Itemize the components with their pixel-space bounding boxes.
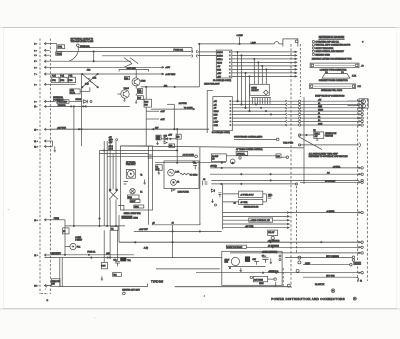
component bracket x118-124 y205	[118, 205, 124, 210]
svg-text:RETURNED TO SYSTEM AT LOW RESO: RETURNED TO SYSTEM AT LOW RESOLVE	[309, 155, 348, 158]
interlock switch box	[314, 132, 324, 138]
svg-text:+15: +15	[214, 104, 217, 106]
capacitor C4	[115, 261, 120, 266]
wires regulator left	[223, 193, 239, 195]
crossover X small diagonal 2	[109, 191, 117, 200]
svg-text:LAMP: LAMP	[305, 262, 311, 265]
svg-text:6 ∘: 6 ∘	[34, 67, 37, 69]
resistor R27 box	[137, 96, 143, 100]
row y227.7	[223, 227, 290, 229]
dark component box	[245, 256, 250, 262]
resistor R2 zigzag	[180, 173, 189, 175]
svg-text:A5A1: A5A1	[134, 205, 138, 208]
transistor Q1	[132, 78, 140, 86]
wire vertical x113.1	[112, 154, 114, 190]
page left edge	[2, 28, 4, 309]
svg-text:+24V BUS: +24V BUS	[57, 127, 67, 129]
right column dashed rail x367.3	[366, 99, 368, 281]
wire vertical x172.6	[172, 225, 174, 258]
svg-text:MAIN VOLTAGE: MAIN VOLTAGE	[227, 246, 243, 249]
svg-text:DELAY: DELAY	[268, 231, 275, 234]
wire vertical x249.5	[249, 76, 251, 111]
regulator box 1 in A5	[128, 195, 140, 199]
relay K2 box top right	[359, 99, 368, 108]
page bottom boundary line	[0, 308, 400, 310]
dashed rail x296.4 mid	[295, 186, 297, 253]
svg-text:T2: T2	[140, 174, 142, 176]
capacitor C4b right of box	[203, 181, 208, 186]
wire strap out	[69, 101, 82, 103]
wire vertical x237.5	[237, 52, 239, 101]
svg-text:F6: F6	[63, 231, 65, 233]
capacitor C5	[262, 258, 268, 263]
ground under C1	[158, 170, 160, 174]
wire vertical x116	[115, 141, 117, 189]
wire Q1 collector drop	[135, 70, 137, 78]
svg-text:TB1: TB1	[127, 260, 130, 262]
svg-text:PWR STRP: PWR STRP	[57, 102, 68, 104]
svg-text:C5 +: C5 +	[262, 256, 266, 258]
svg-text:FU2: FU2	[61, 80, 65, 82]
svg-text:LAMP: LAMP	[214, 120, 220, 123]
arrow stub on bus	[134, 241, 136, 243]
svg-text:+15 (UNREG): +15 (UNREG)	[268, 241, 280, 243]
regulator box 3 in A5	[134, 205, 144, 208]
svg-text:CHAS PWR ASSY: CHAS PWR ASSY	[204, 83, 220, 86]
relay contact circles	[109, 189, 111, 191]
svg-text:P3: P3	[341, 72, 343, 74]
dashed rail x283.2 bottom	[282, 268, 284, 288]
wire vertical x107.2	[106, 141, 108, 226]
vertical rail x222.6	[222, 184, 224, 230]
module box left rail x148.4	[147, 146, 149, 225]
wire vertical x73.9	[73, 106, 75, 225]
remote mem A15 box	[253, 276, 267, 281]
outer left margin band	[0, 28, 3, 309]
svg-text:5 ∘: 5 ∘	[34, 61, 37, 63]
page top boundary line	[0, 27, 400, 29]
svg-text:CR2: CR2	[93, 78, 97, 80]
AC in connector circle	[195, 155, 198, 158]
svg-text:SEE FIRST LETTER FOR REFERENCE: SEE FIRST LETTER FOR REFERENCE TYPE	[312, 59, 352, 61]
wire FL1 tap	[65, 246, 70, 248]
svg-text:P2: P2	[325, 72, 327, 74]
A5A2 dark hatched box	[121, 216, 132, 219]
bus y268.9 center	[156, 268, 220, 270]
svg-text:CR5: CR5	[164, 136, 167, 138]
resistor R33 dark label	[144, 99, 152, 107]
cable break connector symbol row2	[192, 54, 198, 57]
row +5 reg y212.5	[223, 212, 360, 214]
svg-text:+24V OUT: +24V OUT	[139, 229, 149, 231]
wire pin20 y219.8	[50, 219, 65, 221]
svg-text:FUSE 30A: FUSE 30A	[174, 49, 184, 52]
svg-text:A4 FUSE: A4 FUSE	[179, 102, 188, 105]
main divider bus y146.1	[121, 146, 305, 148]
svg-text:PWR SPLY: PWR SPLY	[126, 164, 136, 166]
dark box right y262	[353, 262, 361, 265]
terminal box J2	[213, 97, 232, 131]
rectifier BR1	[231, 257, 239, 265]
wire fuse taps from bus y74	[55, 74, 72, 77]
wire vertical x207.2	[206, 90, 208, 133]
connector bar P-X	[310, 84, 356, 89]
svg-text:10 ∘: 10 ∘	[34, 129, 38, 131]
wire pin9b y106.4	[50, 105, 130, 107]
wire vertical x177.2	[176, 129, 178, 163]
svg-text:24VDC: 24VDC	[217, 52, 223, 54]
wire to conn arrow y109.1	[151, 108, 195, 110]
row lamp y264.7	[303, 264, 350, 266]
svg-text:+5MEM P.S.: +5MEM P.S.	[268, 271, 279, 273]
wire row y144.9 to big connector	[300, 144, 359, 146]
svg-text:HEATER CKT 115V: HEATER CKT 115V	[122, 288, 140, 291]
wire A5B to X bottom	[80, 90, 90, 92]
bus y225.9	[65, 225, 125, 227]
svg-text:9 ∘: 9 ∘	[34, 102, 37, 104]
resistor R24 label box	[124, 76, 129, 79]
diagonal crossover hatch near x128	[124, 58, 138, 68]
svg-text:21 ∘: 21 ∘	[34, 255, 38, 257]
wire pin2 to battery box	[50, 43, 57, 45]
page top margin band	[0, 0, 400, 28]
diode CR9 below filter box	[171, 189, 175, 192]
connector P1 pin 10	[44, 128, 46, 131]
connector P1 pin 9	[44, 100, 46, 103]
ground lower left cluster	[101, 276, 103, 280]
diode CR6	[164, 141, 167, 144]
svg-text:+8.5V REG: +8.5V REG	[165, 74, 176, 76]
row y224	[223, 223, 290, 225]
svg-text:+5 PWR SPLY: +5 PWR SPLY	[240, 194, 254, 196]
wire vertical x254.3 to chan box	[253, 59, 255, 84]
crossover X small diagonal 1	[109, 191, 118, 200]
row y277.2 ext gnd	[303, 276, 356, 278]
diamond mark in chan box	[263, 90, 268, 95]
svg-text:REG: REG	[128, 197, 132, 199]
svg-text:GND: GND	[214, 114, 219, 116]
bus AC y174.2	[210, 173, 359, 175]
interlock wire y135	[300, 134, 314, 136]
small circle taps	[109, 139, 111, 141]
bus y150.4	[100, 149, 178, 151]
trapezoid connector P2	[322, 74, 350, 79]
wire row y139.4	[234, 138, 276, 140]
capacitor C12	[218, 193, 221, 198]
svg-text:+5 (REG): +5 (REG)	[326, 211, 334, 213]
note line 2	[312, 44, 314, 46]
svg-text:+ MIDI CONTROL XX: + MIDI CONTROL XX	[250, 220, 271, 222]
interlock diagonal wire	[298, 137, 322, 150]
junction dot x99.5 y218.6	[99, 218, 100, 219]
regulator board box 2	[239, 199, 263, 204]
svg-text:THE PWR: THE PWR	[283, 142, 294, 144]
wire vertical x262.3 to chan box	[261, 66, 263, 84]
wire fuse row y47.6	[78, 47, 192, 49]
bracket top of regulator section	[119, 70, 149, 72]
scan speck left margin	[8, 208, 10, 211]
bottom connector circles col x299	[298, 256, 301, 259]
connector P1 pin 4	[44, 54, 46, 57]
wire regulator output y86.9	[141, 86, 199, 88]
note circle mark	[123, 292, 126, 295]
svg-text:R 5A: R 5A	[175, 170, 180, 173]
svg-text:EXT COMBUS: EXT COMBUS	[326, 256, 339, 258]
svg-text:TRML: TRML	[56, 54, 62, 56]
transformer T2 circle	[127, 170, 134, 177]
connector P1 pin 6	[44, 66, 46, 69]
wire hop on lamp line	[274, 42, 279, 44]
svg-text:SW: SW	[315, 136, 318, 138]
special boxed label	[236, 151, 248, 155]
svg-text:B NEUT: B NEUT	[75, 240, 83, 242]
interlock ground	[316, 138, 318, 140]
svg-text:3 ∘: 3 ∘	[34, 50, 37, 52]
svg-text:CHAS: CHAS	[214, 110, 220, 113]
line filter module box	[164, 161, 199, 189]
wire Q2 base left	[117, 93, 121, 95]
svg-text:TO CHAS: TO CHAS	[190, 173, 199, 176]
right column solid rail x304	[303, 97, 305, 184]
svg-text:P-X: P-X	[358, 86, 362, 88]
wire curved optional cable drop	[69, 47, 78, 62]
page bottom margin band	[0, 309, 400, 339]
svg-text:+24V: +24V	[160, 111, 165, 113]
hook below pin 6C	[41, 286, 48, 294]
battery BT1 box	[58, 45, 65, 49]
wire vertical x110.1 lower	[109, 199, 111, 226]
svg-text:+5V: +5V	[217, 66, 221, 68]
svg-text:TB2: TB2	[113, 275, 116, 277]
wire vertical x81.4	[80, 74, 82, 146]
svg-text:+15V: +15V	[217, 73, 222, 75]
svg-text:+15V(2): +15V(2)	[210, 166, 217, 168]
small circles right in A12	[279, 255, 281, 257]
svg-text:A13: A13	[87, 69, 91, 72]
svg-text:FLTR: FLTR	[70, 92, 75, 94]
wire pin5 long bus y61.2	[50, 60, 131, 62]
wire verticals into PS cluster	[103, 230, 105, 262]
module A5B box	[70, 89, 80, 94]
crossover X junction dots	[82, 73, 83, 74]
fuse A4 wire	[167, 103, 174, 105]
bus y180.4	[211, 179, 359, 181]
svg-text:C30: C30	[276, 156, 279, 158]
svg-text:BR1: BR1	[225, 262, 229, 264]
connector P1 pin 8	[44, 83, 46, 86]
svg-text:VERTICAL AMPS CONNECTING ASSYS: VERTICAL AMPS CONNECTING ASSYS	[315, 44, 351, 47]
double circle note symbol	[331, 289, 335, 293]
wire pin8 y84.3	[50, 83, 76, 85]
svg-text:CR7: CR7	[252, 259, 256, 261]
bus y153.5	[100, 153, 149, 155]
fuse box F5	[68, 77, 75, 83]
bus y231.4	[134, 230, 222, 232]
svg-text:CHAS: CHAS	[217, 61, 223, 64]
svg-text:12 ∘: 12 ∘	[34, 146, 38, 148]
connector P1 pin 7	[44, 73, 46, 76]
wire CR5 row	[161, 138, 176, 140]
A5 right side tick	[148, 155, 153, 158]
svg-text:+15V: +15V	[168, 134, 173, 136]
ground stub from pin12	[54, 146, 56, 151]
wire lamp y43.9	[199, 43, 274, 45]
row +5mem unreg y252.9	[230, 252, 359, 254]
svg-text:C15+: C15+	[268, 194, 272, 196]
svg-text:9 ◦: 9 ◦	[34, 104, 37, 108]
rectifier module A12 box	[222, 251, 282, 285]
wire vertical x99.5	[99, 151, 101, 226]
connector P1 pin 21	[44, 254, 46, 257]
svg-text:REFERENCE DIAGRAM: REFERENCE DIAGRAM	[319, 36, 345, 39]
svg-text:A1: A1	[318, 102, 320, 105]
resistor R50 box	[169, 144, 175, 148]
svg-text:+24V REG: +24V REG	[127, 68, 137, 70]
svg-text:C4: C4	[203, 179, 205, 181]
svg-text:REMOTE: REMOTE	[52, 281, 61, 283]
svg-text:SUPPLY INDICATOR: SUPPLY INDICATOR	[315, 47, 334, 50]
svg-text:+18V: +18V	[165, 67, 170, 69]
svg-text:+5 VITAL: +5 VITAL	[333, 165, 341, 168]
svg-text:TO CONN: TO CONN	[184, 108, 193, 110]
svg-text:CR23: CR23	[141, 81, 146, 83]
capacitor C30 box	[276, 154, 281, 158]
connector bar J3	[310, 63, 359, 68]
connector circles y157	[286, 156, 288, 158]
svg-text:LAMP: LAMP	[251, 41, 257, 44]
svg-text:B1: B1	[318, 117, 320, 119]
svg-text:18: 18	[153, 222, 155, 224]
svg-text:J1 CONN (J1 COMP): J1 CONN (J1 COMP)	[213, 80, 231, 82]
wire vertical x119	[118, 215, 120, 242]
crossover X diagonal 2	[82, 74, 98, 87]
svg-text:10: 10	[172, 222, 174, 224]
svg-text:A5A2: A5A2	[133, 216, 138, 219]
motor B2 circle	[171, 180, 177, 186]
terminal TB2 box	[113, 273, 122, 277]
crossover X diode marks	[88, 78, 92, 82]
title end circle	[353, 297, 356, 300]
svg-text:TYPE 5A5: TYPE 5A5	[151, 280, 164, 284]
svg-text:R24: R24	[125, 78, 128, 80]
page right edge	[396, 28, 398, 309]
strap box S1	[57, 100, 69, 104]
svg-text:REGULATOR BD: REGULATOR BD	[244, 205, 259, 208]
svg-text:-5 PWR: -5 PWR	[240, 202, 248, 204]
resistor R49 box	[176, 134, 181, 139]
connector P1 left dashed boundary line B	[49, 39, 51, 295]
svg-text:A15 REM: A15 REM	[254, 278, 263, 281]
transistor Q3	[230, 159, 235, 164]
box below bus y226	[111, 226, 118, 230]
arrow on bus x151.8	[152, 128, 154, 130]
svg-text:FUSE 3A: FUSE 3A	[87, 251, 96, 254]
svg-text:R49: R49	[176, 137, 179, 139]
junction circle	[215, 204, 217, 206]
wire to terminal box row1	[198, 51, 217, 53]
wire vertical x146.2	[145, 87, 147, 146]
wire stub y119	[146, 118, 159, 120]
svg-text:CHAN CONTROL AND MEMORY: CHAN CONTROL AND MEMORY	[315, 50, 344, 53]
transformer T1 circle	[168, 169, 175, 176]
bus +5 vital y167.9	[210, 167, 359, 169]
wire vertical x93.7 top	[93, 52, 95, 62]
regulator board box 1	[239, 191, 263, 198]
svg-text:F1: F1	[177, 181, 179, 183]
relay K box at pin3	[56, 52, 62, 56]
fuse box on x65	[63, 228, 69, 234]
svg-text:MEM: MEM	[259, 283, 264, 285]
svg-text:GND A: GND A	[217, 58, 223, 61]
svg-text:-15V: -15V	[109, 142, 114, 144]
wire vertical x199.3	[198, 44, 200, 87]
svg-text:K1: K1	[111, 228, 113, 230]
svg-text:A13: A13	[164, 84, 167, 87]
svg-text:,: ,	[204, 294, 205, 297]
module A5 power supply box	[121, 146, 153, 210]
resistor R26 box	[137, 89, 142, 94]
corner bracket top right of J1	[283, 39, 298, 47]
heater bus left hook	[147, 284, 149, 287]
svg-text:SW: SW	[52, 284, 55, 286]
wire pin6 bus y67.3 with arrow	[50, 66, 164, 68]
diode CR11 cluster	[211, 189, 214, 192]
connector P1 pin 12	[44, 145, 46, 148]
diode CR1	[83, 100, 87, 103]
svg-text:FU3: FU3	[69, 80, 73, 82]
wire pin 6C to remote box	[47, 285, 51, 287]
svg-text:READING CARD: READING CARD	[315, 53, 330, 56]
transistor Q2	[121, 90, 129, 98]
svg-text:A6: A6	[318, 119, 320, 122]
wire vertical x174.3 fuse drop	[173, 104, 175, 129]
diode CR5	[164, 137, 168, 140]
connector P1 pin 11	[44, 140, 46, 143]
svg-text:+: +	[362, 41, 364, 44]
svg-text:FUSE 5A: FUSE 5A	[58, 104, 67, 107]
svg-text:THE AMPLIFIER PLATE: THE AMPLIFIER PLATE	[71, 40, 94, 43]
ground cluster left of regulator	[211, 199, 213, 203]
svg-text:4 ∘: 4 ∘	[34, 55, 37, 57]
svg-text:BLANK XX: BLANK XX	[315, 283, 325, 286]
wire pin9a y101.5	[50, 101, 56, 103]
wire vertical x245.5	[245, 73, 247, 108]
long bus y242.2	[119, 241, 359, 243]
row y216.4	[223, 215, 290, 217]
right column dashed rail x357.7	[357, 99, 359, 284]
svg-text:20 ∘: 20 ∘	[34, 220, 38, 222]
fan B1 circle with X	[130, 189, 135, 194]
svg-text:A10: A10	[106, 252, 109, 255]
svg-text:-15: -15	[214, 108, 217, 110]
svg-text:OUTPUT/GAIN CONTROLS/ETC: OUTPUT/GAIN CONTROLS/ETC	[234, 136, 263, 139]
A2 amp box	[211, 154, 226, 162]
svg-text:11 ∘: 11 ∘	[34, 141, 38, 143]
terminal box J1	[216, 50, 232, 78]
svg-text:+12V: +12V	[160, 119, 165, 121]
wire pin7 bus y74 with arrow	[50, 73, 164, 75]
svg-text:6C ∘: 6C ∘	[34, 286, 38, 288]
bus +5MEM y272.7	[196, 272, 359, 274]
wire vertical node at x56.8	[56, 44, 58, 52]
svg-text:GND: GND	[318, 106, 323, 108]
double vertical bus x59.8 x62.2	[59, 258, 61, 287]
wire +28V bus y51.5	[57, 51, 192, 53]
node circle after CR1	[90, 101, 92, 103]
note line 4	[312, 50, 314, 52]
svg-text:CHAN: CHAN	[251, 87, 257, 90]
svg-text:GND: GND	[217, 69, 222, 71]
